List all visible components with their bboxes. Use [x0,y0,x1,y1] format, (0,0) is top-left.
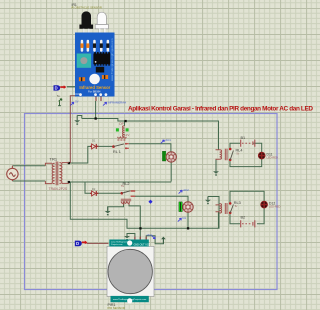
relay RL3 coil [216,203,228,214]
wire RL3 lower lead riser [218,212,220,229]
net label arrow motor M2 bottom [178,216,187,221]
svg-text:AC1: AC1 [165,138,171,142]
bottom pad row [79,93,107,96]
svg-text:TRAN-2P2S: TRAN-2P2S [49,187,68,191]
IR black LED [82,11,92,24]
bottom pin stubs [96,97,101,102]
svg-text:VCC: VCC [147,233,153,237]
wire transformer bottom junction down to gnd bus [70,182,219,228]
svg-text:GND OUT VCC: GND OUT VCC [134,243,151,246]
svg-text:TR1: TR1 [50,157,58,162]
net label arrow PIR vcc [147,233,155,239]
svg-text:B2: B2 [241,215,246,219]
wire motor M2 bottom to gnd bus [187,212,189,228]
svg-text:5V: 5V [121,184,124,188]
IC chip [93,52,110,66]
diode D1 [90,139,98,149]
node PIR OUT / RL2 coil [139,227,141,229]
net label arrow IR pin2 [103,100,126,105]
LED D11 [258,152,278,160]
relay RL1 coil [116,122,129,140]
wire IR pin1 down [95,101,97,119]
LED D12 [261,201,281,209]
ground terminal top-left [74,116,80,125]
svg-text:N1: N1 [182,216,186,220]
svg-text:D: D [55,86,58,91]
small black component [96,67,104,73]
relay RL3 contact [229,201,241,214]
wire RL1 coil stub [124,121,126,126]
wire gnd hook to W1 [77,116,82,119]
transformer TR1 [45,162,68,186]
svg-text:For BB084: For BB084 [88,90,101,94]
net label arrow IR gnd wire [70,100,78,106]
wire AC source bottom to transformer [12,180,45,182]
orange resistor horizontal right [102,75,108,79]
IR sensor module IR1 [71,3,115,101]
power terminal PIR vcc (up arrow) [161,237,166,244]
wire battery B2 to RL3 contact bottom [230,213,240,224]
wire RL2 coil right lead to PIR OUT [129,205,140,240]
node IR pin1 / gnd rail [95,117,97,119]
svg-text:B1: B1 [241,136,246,140]
svg-text:D: D [76,241,79,246]
svg-text:D11: D11 [267,152,273,156]
wire RL1 throw to motor M1 top [129,144,171,152]
IR module board [75,33,115,97]
IR white LED [97,12,106,24]
svg-text:www.TheEngineeringProjects.com: www.TheEngineeringProjects.com [110,38,114,81]
wire RL4 contact top to battery B1 [230,143,240,148]
AC source V1 [7,166,18,181]
wire PIR vcc S-path to power terminal [146,236,163,244]
wire D flag to PIR module [87,242,109,244]
wire IR module left pin maroon [70,96,77,163]
wire LED D11 bottom to RL4 contact bottom [230,159,262,167]
svg-text:INFRAMERAH: INFRAMERAH [108,100,127,104]
relay RL2 coil [121,199,131,205]
svg-text:Infrared Sensor: Infrared Sensor [79,85,110,90]
orange resistor horizontal left [79,77,85,81]
resistor columns with pads [80,40,109,52]
svg-text:PIR SENSOR: PIR SENSOR [108,306,125,310]
PIR board [107,246,154,296]
wire RL3 contact top riser to LED D12 [230,191,264,203]
ground terminal PIR [124,234,130,241]
ground terminal RL2 coil [105,207,111,216]
svg-text:5V: 5V [75,100,78,104]
svg-text:RL 1: RL 1 [113,150,121,154]
relay RL4 coil [216,149,228,160]
wire RL2 throw to motor M2 top [135,196,188,201]
wire transformer secondary top to diode D1 and RL1 common [69,146,113,163]
node transformer secondary top [68,162,70,164]
battery B2 [241,215,255,227]
motor M2 (bottom) [179,202,193,212]
svg-text:LED-RED: LED-RED [267,156,279,160]
ground terminal RL4 [213,159,219,176]
blue diamond marker [148,200,152,204]
svg-text:D2: D2 [92,187,96,191]
svg-text:12V: 12V [124,133,129,137]
node motor M2 return [187,227,189,229]
ground terminal RL3 [205,197,211,205]
node transformer secondary bottom [68,181,70,183]
wire AC source top to transformer [12,165,45,167]
wire RL4 coil lower lead to ground [215,159,217,171]
wire jog down to diode D2 and RL2 common [85,182,121,193]
wire RL3 upper gnd stub [218,196,220,198]
wire W1 horizontal [82,119,219,150]
wire transformer secondary bottom to motor M1 bottom [69,181,171,183]
top pin stubs [135,237,146,240]
PIR sensor module PIR1 [107,237,154,310]
wire RL2 coil left lead to ground arrow [108,205,124,212]
svg-text:D12: D12 [269,201,275,205]
wire PIR gnd pin hook [127,234,135,240]
PIR dome [108,249,152,293]
node RL1 coil / signal rail [124,120,126,122]
PIR top header bar [109,240,149,247]
relay RL1 contact [112,143,129,154]
PIR bottom bar [111,296,149,302]
svg-text:IR OBSTACLE SENSOR: IR OBSTACLE SENSOR [71,5,102,9]
wire motor M1 bottom [170,162,172,181]
svg-text:Projects.com: Projects.com [111,243,123,246]
wire LED D12 bottom to battery B2 [257,208,264,224]
relay RL2 contact [121,191,136,196]
D flag terminal (IR) [54,85,78,95]
wire battery B1 to LED D11 [254,143,262,152]
diode D2 [90,187,98,196]
trimpot teal [77,54,91,68]
relay RL4 contact [229,148,243,161]
battery B1 [241,136,255,147]
svg-text:LED-RED: LED-RED [269,205,281,209]
svg-text:D1: D1 [92,139,96,143]
svg-text:AC2: AC2 [183,188,189,192]
net label arrow motor M1 [161,138,171,143]
motor M1 (top) [162,151,176,162]
D flag terminal (PIR) [75,241,88,247]
voltage probe green (IR left) [57,94,62,106]
svg-text:Aplikasi Kontrol Garasi - Infr: Aplikasi Kontrol Garasi - Infrared dan P… [128,106,313,113]
white circle emitter hole [89,74,100,85]
schematic border box [25,114,278,290]
net label arrow motor M2 top [179,188,189,193]
